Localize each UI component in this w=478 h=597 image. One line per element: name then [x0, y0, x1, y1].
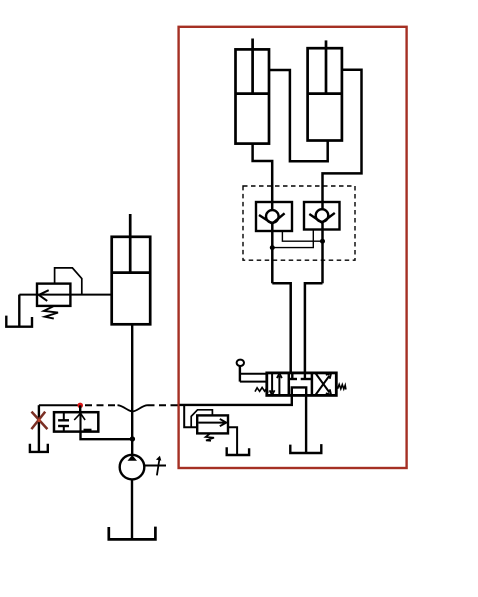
- tank T3 below valve: [290, 444, 321, 453]
- wire C2 head port down to check block: [323, 70, 362, 210]
- cylinder C3 body: [112, 237, 151, 324]
- tank T2: [30, 444, 48, 452]
- wire tap to relief valve V2: [184, 405, 197, 427]
- tank T5: [109, 527, 156, 540]
- junction dot right branch: [320, 239, 325, 244]
- CV1 seat: [259, 213, 285, 223]
- V1 arrow head: [39, 290, 49, 301]
- lever knob: [237, 360, 244, 366]
- wire red dot to left: [39, 404, 78, 406]
- dashed enclosure of check valve block: [243, 186, 355, 260]
- junction dot left branch: [270, 245, 275, 250]
- wire down to tank T2: [38, 405, 40, 451]
- V2 arrow: [199, 422, 226, 424]
- red X mark: [32, 412, 48, 430]
- V3 blocked element: [63, 412, 65, 419]
- junction dot pump line: [130, 436, 135, 441]
- pilot line CV1 to right branch: [282, 231, 322, 241]
- cylinder C3 piston: [112, 271, 151, 274]
- lever arm: [239, 366, 241, 382]
- wire right branch to valve port B: [305, 283, 323, 373]
- cylinder C1 rod: [251, 39, 254, 94]
- directional valve V4 body: [267, 373, 337, 396]
- pump P1 flow triangle: [128, 455, 138, 461]
- relief valve V2 box: [197, 415, 228, 433]
- wire V1 outlet to tank T1: [18, 295, 20, 327]
- V2 pilot line: [191, 410, 212, 427]
- wire left branch to valve port A: [272, 283, 290, 373]
- unloading valve V3 box: [54, 412, 98, 431]
- cylinder C2 body: [308, 48, 342, 140]
- wire red dot into V3: [79, 405, 81, 412]
- V1 spring: [44, 306, 58, 318]
- relief valve V1 box: [37, 284, 70, 306]
- pilot-operated check valve CV2 box: [304, 202, 340, 230]
- tank T4: [227, 447, 249, 455]
- cylinder C1 piston: [236, 92, 270, 95]
- V4 section divider right: [311, 373, 314, 396]
- pump P1 adjust arrow: [157, 459, 160, 476]
- V4 left position up-arrow: [278, 376, 280, 395]
- tank T1: [6, 316, 32, 327]
- CV1 ball: [266, 210, 279, 223]
- V1 pilot line: [55, 268, 82, 295]
- wire V3 outlet to pump line: [81, 432, 133, 440]
- V4 centre position blocked ports: [291, 373, 293, 379]
- V4 right spring: [338, 384, 346, 389]
- V4 right position crossed arrows: [316, 376, 330, 395]
- V3 bottom-right notch: [84, 429, 92, 431]
- V2 spring: [206, 434, 214, 441]
- cylinder C2 piston: [308, 92, 342, 95]
- CV2 seat: [309, 213, 335, 223]
- wire C1 head port to C2 cap port: [269, 70, 328, 161]
- wire V4 P port to pressure line: [180, 395, 292, 405]
- V4 section divider left: [288, 373, 291, 396]
- CV2 ball: [316, 209, 329, 222]
- wire right line below CV2: [321, 223, 324, 284]
- wire V2 outlet to tank: [228, 427, 237, 455]
- wire C1 cap port down to check block: [253, 144, 273, 211]
- relief valve V1 supply line: [19, 294, 111, 296]
- pilot drain dashed line with dip: [85, 404, 118, 406]
- wire C3 down to pump: [131, 324, 133, 455]
- node red dot: [77, 403, 83, 409]
- pump P1 control stub: [144, 465, 166, 467]
- pilot-operated check valve CV1 box: [256, 202, 292, 231]
- wire V4 T port down: [305, 395, 307, 453]
- V4 left position down-arrow: [271, 374, 273, 393]
- wire pump to tank T5: [131, 479, 133, 539]
- red boundary frame: [179, 27, 407, 468]
- pump P1 circle: [120, 455, 145, 480]
- cylinder C2 rod: [325, 40, 328, 93]
- cylinder C1 body: [236, 49, 270, 143]
- wire left line below CV1: [271, 224, 274, 284]
- V3 divider: [79, 412, 81, 431]
- cylinder C3 rod: [129, 214, 132, 273]
- V3 pilot wedge: [74, 413, 85, 420]
- pilot line CV2 to left branch: [272, 230, 313, 248]
- V4 left spring: [255, 388, 268, 393]
